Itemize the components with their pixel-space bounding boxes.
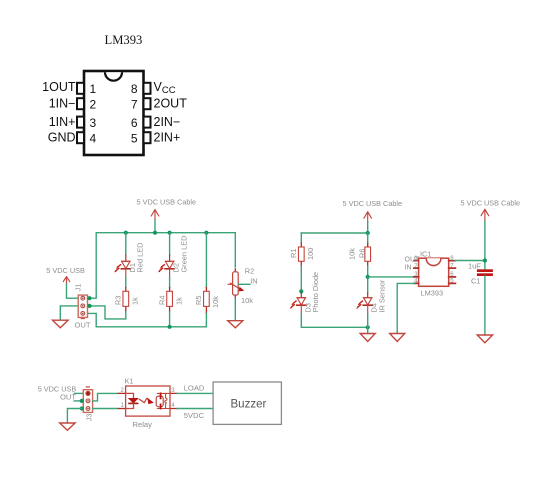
svg-text:1: 1 xyxy=(90,82,97,96)
svg-text:IN: IN xyxy=(405,265,412,272)
resistor R6 xyxy=(365,243,371,266)
wire R1 to D3 xyxy=(300,266,302,293)
junction dot supply/R6 bus xyxy=(366,231,370,235)
svg-text:LM393: LM393 xyxy=(105,33,143,47)
wire bus right end down to R2 xyxy=(234,233,236,267)
resistor R5 xyxy=(204,288,210,314)
ground symbol (IC1) xyxy=(390,334,405,342)
ground symbol (sensor bus) xyxy=(360,334,375,342)
svg-text:6: 6 xyxy=(131,116,138,130)
wire stub OUT to J3 pin2 xyxy=(74,400,82,402)
svg-text:8: 8 xyxy=(131,82,138,96)
pin 1 pad xyxy=(77,83,84,94)
LED D1 (red LED) xyxy=(114,255,130,277)
junction dot pin8/C1 xyxy=(483,258,487,262)
comparator IC1 LM393 xyxy=(414,258,456,286)
svg-text:2: 2 xyxy=(90,98,97,112)
wire D3 to bottom bus xyxy=(301,314,367,328)
svg-text:1k: 1k xyxy=(131,297,140,305)
svg-text:10k: 10k xyxy=(348,248,357,260)
pin 6 pad xyxy=(144,117,151,128)
wire D1 to R3 xyxy=(125,277,127,288)
svg-text:1k: 1k xyxy=(174,297,183,305)
svg-text:2IN+: 2IN+ xyxy=(154,130,181,144)
potentiometer R2 xyxy=(228,269,243,299)
junction dot R1/D3 xyxy=(299,289,303,293)
svg-text:Relay: Relay xyxy=(133,420,153,429)
ground symbol (J1) xyxy=(53,320,69,328)
svg-text:Photo Diode: Photo Diode xyxy=(311,272,320,313)
svg-text:3: 3 xyxy=(90,116,97,130)
capacitor C1 xyxy=(477,269,493,276)
svg-text:J1: J1 xyxy=(74,283,83,291)
svg-text:10k: 10k xyxy=(241,296,253,305)
pin 8 pad xyxy=(144,83,151,94)
supply symbol VCC arrow (C1) xyxy=(481,209,489,221)
wire bottom bus (left section) xyxy=(87,313,206,327)
wire supply down to C1 xyxy=(484,222,486,270)
buzzer box xyxy=(213,382,281,424)
wire bus down to R6 xyxy=(367,233,369,243)
wire J3 pin3 to relay pin1 xyxy=(93,408,119,410)
wire J1 pin2 to ground xyxy=(60,306,89,320)
svg-text:LM393: LM393 xyxy=(421,289,444,298)
junction dot J1 pin1 xyxy=(87,296,91,300)
wire bus to R5 xyxy=(205,233,207,288)
wire IC pin4 to ground xyxy=(397,283,414,333)
resistor R3 xyxy=(123,288,129,312)
svg-text:VCC: VCC xyxy=(154,80,176,96)
wire relay pin3 to buzzer (LOAD) xyxy=(177,392,213,394)
svg-text:2OUT: 2OUT xyxy=(154,96,188,110)
junction dot R4/bottom bus xyxy=(168,325,172,329)
junction dot J1 pin2 xyxy=(87,304,91,308)
notch (pin-1 index) xyxy=(105,72,122,81)
svg-text:5 VDC USB Cable: 5 VDC USB Cable xyxy=(343,199,403,208)
wire top bus (left section) xyxy=(96,232,235,234)
IR emitter D4 xyxy=(356,293,372,314)
svg-text:100: 100 xyxy=(306,248,315,260)
svg-text:Buzzer: Buzzer xyxy=(231,399,267,411)
svg-text:GND: GND xyxy=(48,130,76,144)
svg-text:1IN+: 1IN+ xyxy=(49,115,76,129)
svg-text:R5: R5 xyxy=(194,296,203,305)
wire bus down to R1 xyxy=(300,233,302,243)
supply symbol VCC arrow (sensor) xyxy=(364,212,372,222)
wire R4 to bottom bus xyxy=(169,312,171,327)
wire IC pin8 to supply/C1 xyxy=(455,260,485,262)
svg-text:5 VDC USB Cable: 5 VDC USB Cable xyxy=(461,199,521,208)
svg-text:4: 4 xyxy=(90,132,97,146)
svg-text:Green LED: Green LED xyxy=(179,236,188,273)
svg-text:IC1: IC1 xyxy=(420,249,432,258)
ground symbol (R2) xyxy=(228,321,243,328)
svg-text:C1: C1 xyxy=(471,276,480,285)
junction dot R5/bus xyxy=(204,231,208,235)
connector J3 xyxy=(83,390,92,413)
ground symbol (C1) xyxy=(477,335,492,343)
wire bus left end down to J1 pin1 xyxy=(89,233,96,299)
connector J1 xyxy=(78,295,87,319)
wire relay pin4 to buzzer (5VDC) xyxy=(177,408,213,410)
wire bus to D2 xyxy=(169,233,171,255)
svg-text:1OUT: 1OUT xyxy=(42,80,76,94)
svg-text:LOAD: LOAD xyxy=(184,384,205,393)
pin 7 pad xyxy=(144,98,151,109)
wire R2 to ground xyxy=(234,299,236,321)
svg-text:1IN−: 1IN− xyxy=(49,96,76,110)
svg-text:5VDC: 5VDC xyxy=(184,411,205,420)
LED D2 (green LED) xyxy=(158,255,174,277)
pin 3 pad xyxy=(77,117,84,128)
wire C1 to ground xyxy=(484,276,486,334)
svg-text:OUT: OUT xyxy=(405,257,421,264)
wire supply to sensor top bus xyxy=(367,222,369,233)
svg-text:R6: R6 xyxy=(358,249,367,258)
relay K1 xyxy=(119,386,178,416)
junction dot R6/D4/IC xyxy=(366,275,370,279)
svg-text:1uF: 1uF xyxy=(468,261,481,270)
svg-text:Red LED: Red LED xyxy=(136,243,145,273)
wire supply arrow to J1 pin1 xyxy=(67,284,79,298)
wire top bus (sensor section) xyxy=(301,232,367,234)
pin 2 pad xyxy=(77,98,84,109)
svg-text:IN: IN xyxy=(250,276,257,285)
svg-text:OUT: OUT xyxy=(75,321,91,330)
svg-text:J3: J3 xyxy=(85,413,94,421)
svg-text:R3: R3 xyxy=(114,296,123,305)
svg-text:R1: R1 xyxy=(289,249,298,258)
supply pin marker (J3) xyxy=(86,386,89,388)
junction dot D4/bottom bus xyxy=(366,325,370,329)
wire stub 5VDC to J3 pin1 xyxy=(74,392,83,394)
junction dot J3 pin2 xyxy=(80,399,84,403)
photodiode D3 xyxy=(290,293,306,314)
junction dot D2/bus xyxy=(168,231,172,235)
wire R2 wiper (IN stub) xyxy=(238,283,250,285)
supply symbol VCC arrow (left section) xyxy=(151,210,159,221)
pin 4 pad xyxy=(77,132,84,143)
junction dot J3 pin3 xyxy=(80,406,84,410)
wire R6 to D4 junction xyxy=(367,266,369,293)
ground symbol (J3) xyxy=(60,423,75,430)
pin 5 pad xyxy=(144,132,151,143)
svg-text:2IN−: 2IN− xyxy=(154,115,181,129)
wire J3 pin3 to ground xyxy=(67,409,81,424)
wire bus to D1 xyxy=(125,233,127,255)
svg-text:K1: K1 xyxy=(125,376,134,385)
svg-text:R4: R4 xyxy=(157,296,166,305)
wire D4 to bottom bus / ground xyxy=(367,314,369,334)
resistor R1 xyxy=(298,243,304,266)
junction dot D1/bus xyxy=(124,231,128,235)
junction dot supply/bus xyxy=(153,231,157,235)
supply symbol VCC arrow (J1) xyxy=(63,277,69,284)
svg-text:10k: 10k xyxy=(211,296,220,308)
wire junction to IC pin3 xyxy=(368,276,415,278)
wire R3 to J1 pin2 xyxy=(89,306,126,319)
svg-text:5 VDC USB Cable: 5 VDC USB Cable xyxy=(137,198,197,207)
svg-text:5 VDC USB: 5 VDC USB xyxy=(46,266,85,275)
resistor R4 xyxy=(167,288,173,312)
wire J3 pin2 to relay pin2 xyxy=(93,393,119,401)
svg-text:R2: R2 xyxy=(245,266,254,275)
wire supply to top bus xyxy=(154,220,156,233)
svg-text:7: 7 xyxy=(131,98,138,112)
wire D2 to R4 xyxy=(169,277,171,288)
svg-text:5: 5 xyxy=(131,132,138,146)
op-amp U1 body (DIP-8 outline) xyxy=(84,71,144,155)
svg-text:IR Sensor: IR Sensor xyxy=(378,279,387,312)
